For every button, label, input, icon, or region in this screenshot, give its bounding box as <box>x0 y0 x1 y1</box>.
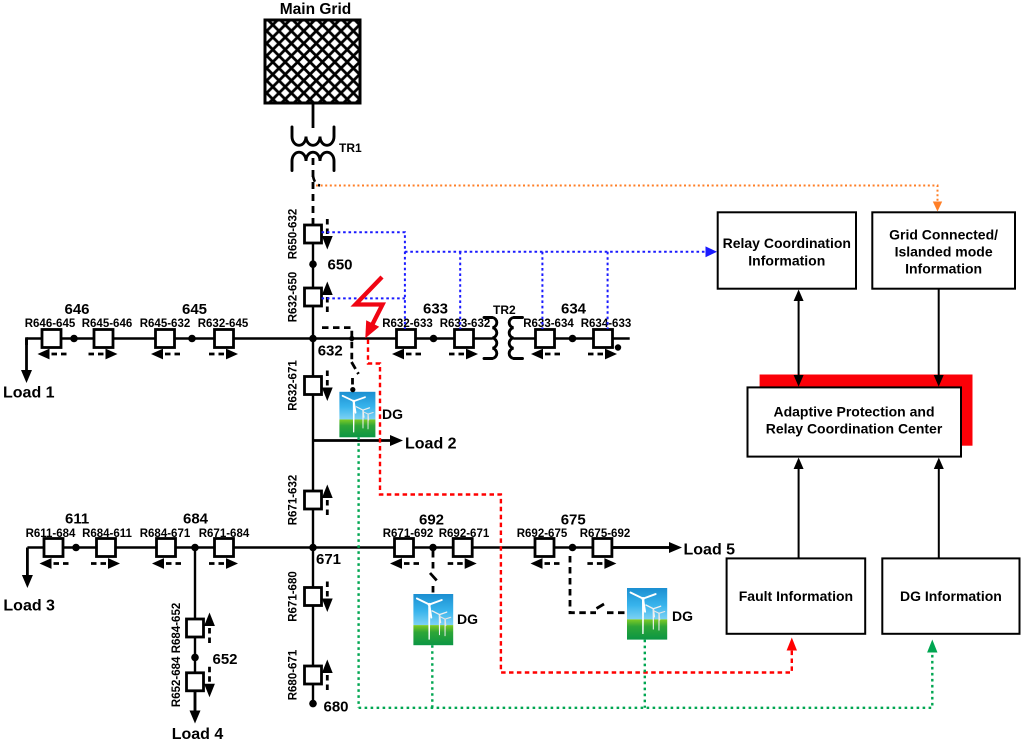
svg-text:R671-632: R671-632 <box>288 475 300 526</box>
svg-text:R634-633: R634-633 <box>581 318 632 330</box>
node 634 <box>569 335 577 343</box>
bus 671 wire <box>27 546 671 548</box>
relay R680-671 breaker box <box>305 666 322 684</box>
svg-text:R684-611: R684-611 <box>82 528 132 540</box>
junction dot DG1 tap on bus 632 <box>349 336 354 341</box>
svg-text:R632-650: R632-650 <box>288 272 300 323</box>
load arrow Load 5 <box>611 542 682 553</box>
load arrow Load 2 <box>313 435 403 446</box>
svg-text:Main Grid: Main Grid <box>280 1 351 18</box>
arrow Grid Connected Info -> Center <box>934 289 944 387</box>
green dotted main to DG Information <box>359 640 938 708</box>
relay R675-692 direction arrow <box>587 558 616 569</box>
relay R671-680 direction arrow <box>322 582 333 613</box>
svg-text:Relay Coordination: Relay Coordination <box>723 235 851 251</box>
node 652 <box>191 654 199 662</box>
relay R645-646 direction arrow <box>89 349 118 360</box>
terminator dot right of R634-633 <box>615 344 621 350</box>
svg-text:Load 1: Load 1 <box>3 385 55 402</box>
svg-text:650: 650 <box>328 257 353 274</box>
blue dotted drop to relay R634-633 <box>607 252 609 329</box>
main grid block <box>265 20 360 103</box>
relay R634-633 breaker box <box>594 330 613 348</box>
relay R632-650 breaker box <box>305 288 322 306</box>
relay R646-645 breaker box <box>42 330 61 348</box>
svg-text:R632-633: R632-633 <box>382 318 433 330</box>
svg-text:684: 684 <box>183 511 209 528</box>
svg-text:Relay Coordination Center: Relay Coordination Center <box>766 421 943 437</box>
relay R611-684 direction arrow <box>40 558 69 569</box>
node 680 <box>309 700 317 708</box>
relay R671-692 direction arrow <box>390 558 419 569</box>
blue dotted from relay R632-650 <box>322 297 405 299</box>
relay R671-632 breaker box <box>305 491 322 509</box>
node 671 junction <box>309 544 317 552</box>
node 675 <box>569 544 577 552</box>
relay R684-671 direction arrow <box>152 558 181 569</box>
svg-text:646: 646 <box>65 301 90 318</box>
svg-text:DG: DG <box>672 608 693 624</box>
relay R632-645 breaker box <box>215 330 234 348</box>
svg-text:TR2: TR2 <box>493 303 516 317</box>
blue dotted drop to relay R633-634 <box>541 252 543 329</box>
svg-text:692: 692 <box>419 512 444 529</box>
svg-text:675: 675 <box>561 512 586 529</box>
svg-text:DG Information: DG Information <box>900 588 1002 604</box>
relay R684-652 direction arrow <box>204 613 215 644</box>
load arrow Load 1 <box>21 339 32 384</box>
svg-text:671: 671 <box>316 551 341 568</box>
DG unit 2 (wind) icon <box>413 594 453 645</box>
svg-text:R684-652: R684-652 <box>171 603 183 654</box>
transformer TR1 secondary winding <box>292 152 334 170</box>
svg-text:R645-646: R645-646 <box>82 318 133 330</box>
DG unit 1 (wind) icon <box>339 392 375 437</box>
relay R633-632 breaker box <box>455 330 474 348</box>
svg-text:R680-671: R680-671 <box>288 649 300 700</box>
svg-text:R611-684: R611-684 <box>26 528 76 540</box>
svg-text:634: 634 <box>561 301 587 318</box>
wire TR1 to relay R650-632 (dashed) <box>312 158 315 225</box>
svg-text:632: 632 <box>318 343 343 360</box>
relay R680-671 direction arrow <box>322 660 333 691</box>
svg-text:633: 633 <box>423 301 448 318</box>
transformer TR2 right winding <box>509 318 522 359</box>
node 692 <box>429 544 437 552</box>
node 684 <box>191 544 199 552</box>
arrow Fault Information -> Center <box>794 458 804 559</box>
wire feeder 650 to bus 632 <box>312 243 314 339</box>
relay R684-611 breaker box <box>97 539 116 557</box>
wire node 692 to DG2 (dashed, open switch) <box>430 551 439 594</box>
node 633 <box>430 335 438 343</box>
relay R645-632 direction arrow <box>151 349 180 360</box>
relay R645-632 breaker box <box>156 330 175 348</box>
svg-text:Information: Information <box>748 253 825 269</box>
relay R633-634 breaker box <box>536 330 555 348</box>
svg-text:645: 645 <box>182 301 207 318</box>
relay R646-645 direction arrow <box>38 349 67 360</box>
relay R684-671 breaker box <box>157 539 176 557</box>
relay R632-633 direction arrow <box>392 349 421 360</box>
svg-text:Islanded mode: Islanded mode <box>895 244 993 260</box>
svg-text:R632-671: R632-671 <box>288 360 300 411</box>
svg-text:R671-684: R671-684 <box>199 528 250 540</box>
orange dotted line TR1 area to Grid Connected Info <box>316 186 942 212</box>
wire bus 671 to node 680 <box>312 548 314 704</box>
node 646 <box>70 335 78 343</box>
svg-text:Fault Information: Fault Information <box>739 588 853 604</box>
svg-text:R646-645: R646-645 <box>25 318 76 330</box>
transformer TR2 left winding <box>484 318 497 359</box>
box Adaptive Protection and Relay Coordination Center <box>748 387 962 456</box>
wire bus632 left end down <box>25 337 28 345</box>
red dashed fault information line <box>368 340 797 673</box>
node 632 junction <box>309 335 317 343</box>
relay R671-680 breaker box <box>305 588 322 606</box>
svg-text:DG: DG <box>457 611 478 627</box>
svg-text:R645-632: R645-632 <box>140 318 191 330</box>
node 645 <box>188 335 196 343</box>
svg-text:R692-675: R692-675 <box>517 528 568 540</box>
svg-text:TR1: TR1 <box>339 141 362 155</box>
relay R633-632 direction arrow <box>449 349 478 360</box>
svg-text:680: 680 <box>324 699 349 716</box>
relay R650-632 breaker box <box>305 225 322 243</box>
transformer TR1 primary winding <box>292 127 334 145</box>
relay R675-692 breaker box <box>593 539 612 557</box>
DG unit 3 (wind) icon <box>627 588 667 640</box>
svg-text:R684-671: R684-671 <box>140 528 191 540</box>
green dotted from DG2 <box>431 645 433 708</box>
relay R632-671 direction arrow <box>322 371 333 402</box>
svg-text:Load 4: Load 4 <box>172 726 224 743</box>
green dotted from DG3 <box>644 640 646 708</box>
wire node 675 to DG3 (dashed, open switch) <box>570 556 627 613</box>
svg-text:R632-645: R632-645 <box>198 318 249 330</box>
relay R632-671 breaker box <box>305 377 322 395</box>
relay R692-675 breaker box <box>535 539 554 557</box>
svg-text:R692-671: R692-671 <box>439 528 490 540</box>
svg-text:R671-680: R671-680 <box>288 571 300 622</box>
svg-text:Load 5: Load 5 <box>684 542 736 559</box>
blue dotted drop to relay R633-632 <box>459 252 461 329</box>
svg-text:R650-632: R650-632 <box>288 209 300 260</box>
svg-text:R633-632: R633-632 <box>440 318 491 330</box>
relay R652-684 direction arrow <box>204 667 215 698</box>
box Grid Connected / Islanded mode Information <box>872 212 1015 288</box>
wire grid to TR1 <box>312 103 315 128</box>
load arrow Load 4 <box>190 690 201 724</box>
svg-text:DG: DG <box>382 406 403 422</box>
svg-text:Information: Information <box>905 261 982 277</box>
relay R650-632 direction arrow <box>322 219 333 250</box>
wire node 684 down to Load 4 <box>194 548 196 713</box>
blue dotted main to Relay Coordination Info <box>405 246 717 257</box>
svg-text:Grid Connected/: Grid Connected/ <box>889 227 998 243</box>
box Fault Information <box>727 558 866 633</box>
svg-text:R652-684: R652-684 <box>171 656 183 707</box>
svg-text:R671-692: R671-692 <box>383 528 434 540</box>
node 650 <box>309 260 317 268</box>
DG1 connection dot <box>350 387 355 392</box>
svg-text:652: 652 <box>213 651 238 668</box>
double arrow Relay Coordination Info <-> Center <box>794 290 804 387</box>
dashed bend toward orange line <box>313 176 320 186</box>
red shadow of adaptive protection center <box>760 375 973 446</box>
relay R632-633 breaker box <box>397 330 416 348</box>
relay R671-692 breaker box <box>395 539 414 557</box>
relay R684-652 breaker box <box>187 619 204 637</box>
bus 632 wire left part <box>27 337 493 339</box>
relay R692-671 direction arrow <box>448 558 477 569</box>
svg-text:Load 2: Load 2 <box>405 436 457 453</box>
relay R684-611 direction arrow <box>91 558 120 569</box>
blue dotted from relay R650-632 <box>322 232 405 329</box>
box Relay Coordination Information <box>718 212 856 288</box>
load arrow Load 3 <box>22 548 33 589</box>
box DG Information <box>882 558 1019 633</box>
svg-text:Adaptive Protection and: Adaptive Protection and <box>773 404 934 420</box>
relay R632-650 direction arrow <box>322 282 333 313</box>
relay R645-646 breaker box <box>94 330 113 348</box>
relay R611-684 breaker box <box>44 539 63 557</box>
wire bus 632 to bus 671 <box>312 339 314 548</box>
fault lightning bolt <box>356 277 383 338</box>
relay R671-684 direction arrow <box>209 558 238 569</box>
svg-text:R675-692: R675-692 <box>580 528 631 540</box>
arrow DG Information -> Center <box>934 458 944 559</box>
node 611 <box>72 544 80 552</box>
relay R692-671 breaker box <box>453 539 472 557</box>
svg-text:Load 3: Load 3 <box>3 598 55 615</box>
relay R671-632 direction arrow <box>322 485 333 516</box>
relay R652-684 breaker box <box>187 673 204 691</box>
relay R632-645 direction arrow <box>209 349 238 360</box>
relay R634-633 direction arrow <box>588 349 617 360</box>
wire bus632 to DG1 (dashed, open switch) <box>322 328 359 390</box>
bus 632 wire right of TR2 <box>514 337 630 339</box>
svg-text:611: 611 <box>65 511 89 528</box>
relay R671-684 breaker box <box>215 539 234 557</box>
relay R633-634 direction arrow <box>531 349 560 360</box>
green dotted from DG1 <box>357 437 359 708</box>
svg-text:R633-634: R633-634 <box>523 318 574 330</box>
relay R692-675 direction arrow <box>531 558 560 569</box>
